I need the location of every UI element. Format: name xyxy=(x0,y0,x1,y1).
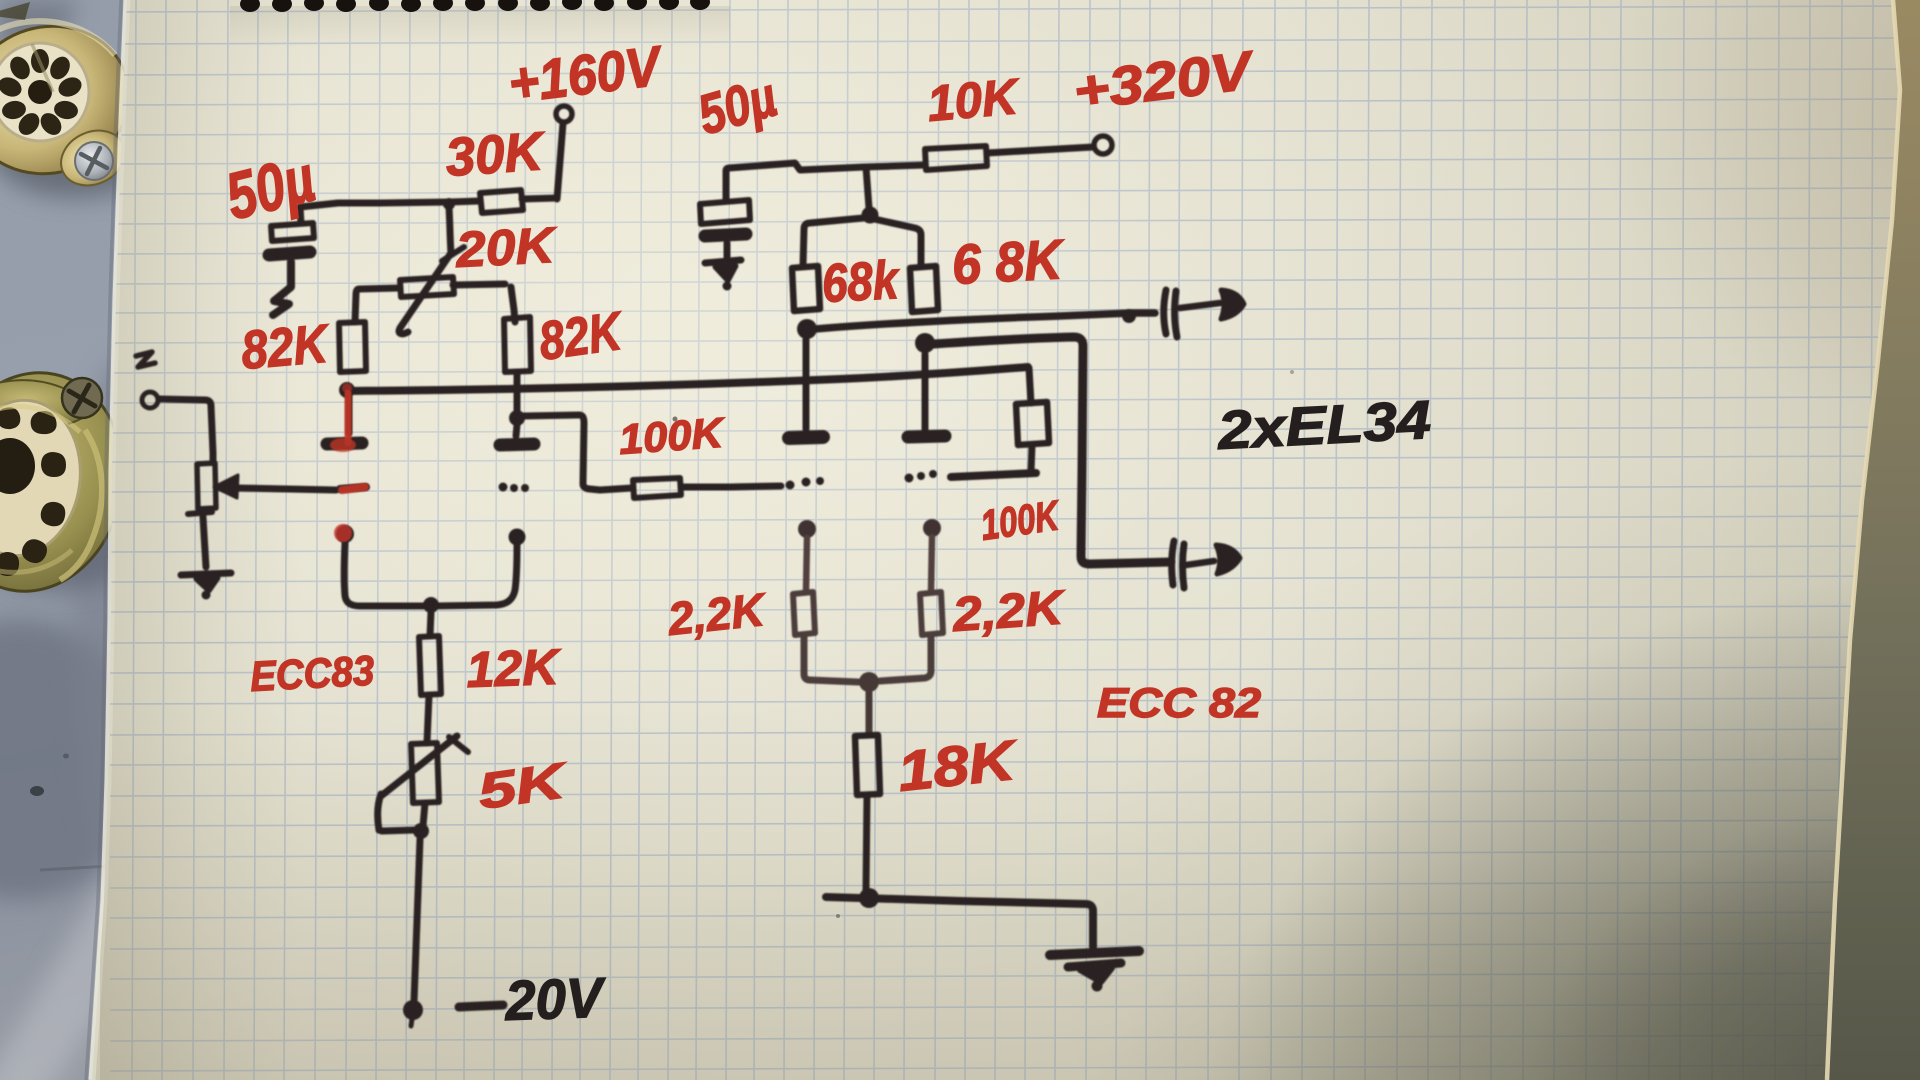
svg-text:18K: 18K xyxy=(895,728,1022,803)
resistor 100K left xyxy=(633,478,681,498)
node: 68K-left bottom xyxy=(797,319,817,339)
svg-text:2,2K: 2,2K xyxy=(950,581,1068,642)
ground right: bar xyxy=(1050,951,1139,955)
wire: junction to 18K xyxy=(866,692,873,735)
wire: junction to 12K xyxy=(430,612,431,636)
resistor 2.2K left xyxy=(793,592,815,635)
ground right: blob xyxy=(1068,963,1121,967)
svg-text:12K: 12K xyxy=(465,639,563,698)
tube V1-right plate bar xyxy=(500,444,534,445)
potentiometer 20K wiper diagonal xyxy=(399,253,451,334)
wire: V1-left cathode to 12K xyxy=(344,543,428,606)
wire: V2-right plate lead xyxy=(922,354,929,431)
svg-text:100K: 100K xyxy=(617,409,727,463)
node: 68K-right bottom xyxy=(915,333,935,353)
node: V2-left cathode xyxy=(798,520,816,538)
wire: 100K right bottom lead xyxy=(1031,445,1032,472)
wire: 82K right bottom lead xyxy=(514,372,521,412)
capacitor out top bars xyxy=(1164,290,1166,334)
tube V2-left grid dots xyxy=(786,481,795,490)
tube V2-right plate bar xyxy=(908,436,945,437)
tube V2-right grid dots xyxy=(905,474,914,483)
ground right-top: blob xyxy=(715,266,736,281)
resistor 68K right xyxy=(910,266,938,312)
wire: B+ to 68K left xyxy=(803,218,863,266)
potentiometer 5K body xyxy=(411,743,439,803)
wire: 2.2K right to junction xyxy=(880,635,931,681)
ground left: blob xyxy=(196,578,218,591)
input attenuator body xyxy=(197,463,216,509)
svg-text:2,2K: 2,2K xyxy=(665,583,770,645)
node: V1-right plate junction xyxy=(509,410,525,426)
wire: top rail left xyxy=(300,201,480,207)
wire: plate junction jog to 100K xyxy=(523,415,632,490)
svg-text:ECC83: ECC83 xyxy=(249,647,375,700)
capacitor 50u left bottom plate xyxy=(269,252,310,255)
wire: 5K bottom xyxy=(423,803,425,826)
ground right-top: bar xyxy=(705,260,741,263)
wire: to -20V xyxy=(414,839,420,1002)
resistor 10K xyxy=(925,146,987,170)
paper specks xyxy=(673,417,678,422)
node: rail/20K junction xyxy=(443,198,455,210)
input attenuator bottom bar xyxy=(188,512,212,514)
terminal +160V xyxy=(556,106,572,122)
node: V2-right cathode xyxy=(923,519,941,537)
wire: 68K-right to lower output corner xyxy=(934,337,1171,564)
potentiometer 20K wiper top tick xyxy=(442,247,464,261)
resistor 2.2K right xyxy=(920,592,943,635)
svg-text:68k: 68k xyxy=(820,250,902,314)
ground left: bar xyxy=(181,573,231,575)
node: V1-left cathode xyxy=(336,525,354,543)
capacitor out bottom bars xyxy=(1172,541,1174,585)
wire: +320V to 10K xyxy=(987,147,1093,153)
node: V1-right cathode xyxy=(509,529,526,546)
wire: junction down to 20K wiper xyxy=(449,207,451,253)
svg-text:82K: 82K xyxy=(535,301,628,372)
circuit: hand drawn black marker xyxy=(136,106,1244,1026)
minus sign of -20V xyxy=(459,1005,503,1007)
resistor 68K left xyxy=(792,266,820,311)
svg-text:20K: 20K xyxy=(454,217,560,278)
wire: 10K to B+ node xyxy=(864,165,925,167)
terminal -20V dot xyxy=(403,1000,423,1020)
capacitor 50u left: lead from rail xyxy=(300,207,301,223)
potentiometer 20K body xyxy=(400,277,454,297)
svg-text:2xEL34: 2xEL34 xyxy=(1215,390,1432,461)
node: 82K-left bottom / bus start xyxy=(339,382,355,398)
wire: B+ to 68K right xyxy=(874,219,921,266)
wire: 20K right lead xyxy=(453,284,505,285)
node: ground bus junction xyxy=(859,888,879,908)
potentiometer 5K top tick xyxy=(449,737,468,752)
input arrowhead xyxy=(214,475,238,498)
capacitor 50u right lead xyxy=(724,243,731,257)
tube V1-left plate bar xyxy=(327,443,362,444)
svg-text:10K: 10K xyxy=(925,68,1023,132)
capacitor 50u left top plate xyxy=(271,223,314,241)
wire: grid dash overlap xyxy=(340,487,366,489)
potentiometer 5K wiper loop xyxy=(378,794,415,831)
resistor 82K right xyxy=(504,317,531,372)
red marker overlaps xyxy=(330,383,365,542)
paper left edge bright rim xyxy=(92,0,127,1080)
svg-text:30K: 30K xyxy=(444,121,549,188)
node: B+ junction xyxy=(862,207,879,224)
wire: ground bus xyxy=(826,897,1093,947)
input terminal circle xyxy=(142,392,158,408)
input tilde mark xyxy=(136,352,155,367)
resistor 12K xyxy=(419,636,441,695)
wire: V2-left cathode lead xyxy=(806,538,807,592)
wire: 20K left lead xyxy=(355,288,400,322)
wire: V1-right cathode to 12K xyxy=(434,545,517,606)
resistor 82K left xyxy=(339,322,366,372)
node: cathode junction V2 xyxy=(859,672,879,692)
wire: 18K to ground bus xyxy=(866,795,867,890)
wire: 100K right lead xyxy=(681,486,781,487)
capacitor 50u right bottom plate xyxy=(705,234,746,236)
tube V1-right grid dots xyxy=(499,483,508,492)
wire: V2-right grid dash to 100K xyxy=(951,473,1036,477)
capacitor 50u right top plate xyxy=(700,200,750,224)
terminal +320V xyxy=(1094,136,1112,154)
svg-text:20V: 20V xyxy=(503,965,608,1032)
tube V2-left plate bar xyxy=(789,437,823,438)
capacitor 50u right: lead xyxy=(723,171,730,199)
wire: V2-left plate lead xyxy=(803,339,810,429)
wire: V2-right cathode lead xyxy=(931,537,932,592)
wire: 2.2K left to junction xyxy=(804,635,858,682)
svg-text:ECC 82: ECC 82 xyxy=(1097,679,1261,726)
arrow out top xyxy=(1180,303,1220,308)
node: cathode junction xyxy=(423,597,439,613)
wire: V1-left plate lead xyxy=(346,396,353,433)
resistor 100K right xyxy=(1016,402,1049,445)
table speck xyxy=(30,786,44,796)
wire: +160V lead down xyxy=(557,123,563,199)
resistor 18K xyxy=(855,735,880,795)
tube socket B (lower-left, octal) xyxy=(0,356,160,609)
wire: stub to 82K right xyxy=(511,287,515,322)
wire: B+ stub down xyxy=(866,167,869,208)
arrow out bottom xyxy=(1186,561,1214,565)
wire: long grid bus xyxy=(347,367,1028,391)
svg-text:82K: 82K xyxy=(239,313,333,381)
wire: top output xyxy=(815,313,1155,329)
tube socket A (top-left, noval) xyxy=(0,2,160,198)
wire: top rail right of 30K xyxy=(522,198,557,199)
potentiometer 5K diagonal xyxy=(381,736,457,796)
wire: 12K to 5K xyxy=(427,695,429,743)
wire: input jack to attenuator xyxy=(159,399,213,461)
wire: V1-left grid wire from input arrow xyxy=(236,488,336,490)
spiral binding holes xyxy=(240,0,710,12)
resistor 30K xyxy=(480,190,523,213)
svg-text:6 8K: 6 8K xyxy=(950,227,1066,296)
wire: V1-right plate lead xyxy=(516,425,517,436)
notebook edge strip right of page xyxy=(1827,0,1920,1080)
wire: attenuator to ground xyxy=(203,517,206,567)
wire: 100K right top lead xyxy=(1029,368,1031,403)
capacitor 50u left lead + zigzag xyxy=(273,262,291,315)
wire: B+ rail to 50u right xyxy=(726,163,864,171)
node: 5K wiper junction xyxy=(413,823,429,839)
